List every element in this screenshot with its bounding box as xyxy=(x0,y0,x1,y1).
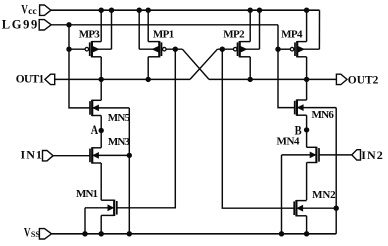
svg-text:LG99: LG99 xyxy=(2,18,38,32)
wire MP4 source to Vcc xyxy=(304,8,308,42)
wire MN2 source to Vss xyxy=(304,216,308,236)
svg-text:MP2: MP2 xyxy=(223,29,245,41)
transistor MN3 xyxy=(90,136,132,164)
wire Vss rail xyxy=(52,233,337,235)
wire MP3 bulk to Vcc xyxy=(109,8,113,49)
port OUT2 xyxy=(336,74,378,87)
svg-text:MN2: MN2 xyxy=(312,189,336,201)
wire MP1 gate cross-couple to OUT2 xyxy=(166,47,209,79)
wire MP2 bulk to Vcc xyxy=(257,8,261,49)
svg-text:MP1: MP1 xyxy=(153,29,174,41)
wire MN1 bulk to Vss xyxy=(83,208,87,236)
transistor MP2 xyxy=(223,29,259,58)
wire MN4 gate to IN2 xyxy=(319,154,352,156)
wire LG99 drop right to MN6 gate xyxy=(276,25,295,108)
transistor MN1 xyxy=(76,188,117,216)
svg-text:IN1: IN1 xyxy=(21,147,42,161)
port OUT1 xyxy=(16,74,55,86)
svg-text:SS: SS xyxy=(31,230,40,239)
wire MN3 source to MN1 drain xyxy=(100,163,102,200)
svg-text:A: A xyxy=(91,122,99,137)
svg-text:MP4: MP4 xyxy=(281,29,303,41)
transistor MN6 xyxy=(295,99,337,121)
svg-text:MN6: MN6 xyxy=(312,109,335,121)
wire LG99 rail xyxy=(51,24,278,26)
wire MP3 drain to OUT1 xyxy=(99,57,103,82)
wire MP1 gate to MN1 gate xyxy=(117,49,175,208)
svg-text:MP3: MP3 xyxy=(79,29,101,41)
wire MP3 source to Vcc xyxy=(99,8,103,42)
wire MN4 bulk to Vss xyxy=(279,155,283,236)
wire MN4 source to MN2 drain xyxy=(306,163,308,201)
wire MP2 gate to MN2 gate xyxy=(222,49,294,208)
svg-text:MN5: MN5 xyxy=(108,112,131,124)
transistor MN2 xyxy=(294,189,336,216)
wire MN6 drain to OUT2 xyxy=(306,79,308,100)
svg-text:MN3: MN3 xyxy=(108,136,130,148)
svg-text:MN1: MN1 xyxy=(76,188,98,200)
wire MP2 gate cross-couple to OUT1 xyxy=(190,47,233,79)
wire MP4 drain to OUT2 xyxy=(304,57,308,82)
port Vcc xyxy=(21,2,51,17)
port IN2 xyxy=(352,148,383,162)
wire OUT1 line xyxy=(55,78,190,80)
svg-text:V: V xyxy=(21,2,28,16)
wire MP2 source to Vcc xyxy=(248,8,252,42)
port IN1 xyxy=(21,147,54,161)
wire MP3 gate xyxy=(69,48,85,50)
wire LG99 drop left to MN5 gate xyxy=(67,23,90,108)
wire IN1 to MN3 gate xyxy=(53,155,90,157)
node A xyxy=(91,116,104,148)
svg-text:OUT1: OUT1 xyxy=(16,74,45,86)
wire MP1 bulk to Vcc xyxy=(137,8,141,49)
wire MP4 bulk to Vcc rail end xyxy=(318,10,320,49)
wire Vcc rail xyxy=(51,9,320,11)
wire left bulk column to Vss xyxy=(127,108,131,236)
svg-text:cc: cc xyxy=(28,7,36,17)
transistor MP4 xyxy=(281,29,319,58)
wire MN5 drain to OUT1 xyxy=(100,79,102,100)
wire MN1 source to Vss xyxy=(99,215,103,236)
node B xyxy=(295,115,309,147)
wire MP1 source to Vcc xyxy=(146,8,150,42)
transistor MP3 xyxy=(79,29,112,58)
transistor MN5 xyxy=(90,100,131,124)
svg-text:OUT2: OUT2 xyxy=(348,75,379,87)
wire OUT2 line xyxy=(209,78,336,80)
wire MP4 gate xyxy=(278,48,290,50)
svg-text:V: V xyxy=(24,225,31,239)
svg-text:MN4: MN4 xyxy=(277,136,301,148)
transistor MP1 xyxy=(139,29,174,58)
port Vss xyxy=(24,225,52,239)
wire right bulk column to Vss xyxy=(334,108,338,234)
wire MP1 drain to OUT1 xyxy=(146,57,150,82)
transistor MN4 xyxy=(277,136,320,164)
svg-text:IN2: IN2 xyxy=(361,148,383,162)
wire MP2 drain to OUT2 xyxy=(248,57,252,82)
port LG99 xyxy=(2,18,51,32)
